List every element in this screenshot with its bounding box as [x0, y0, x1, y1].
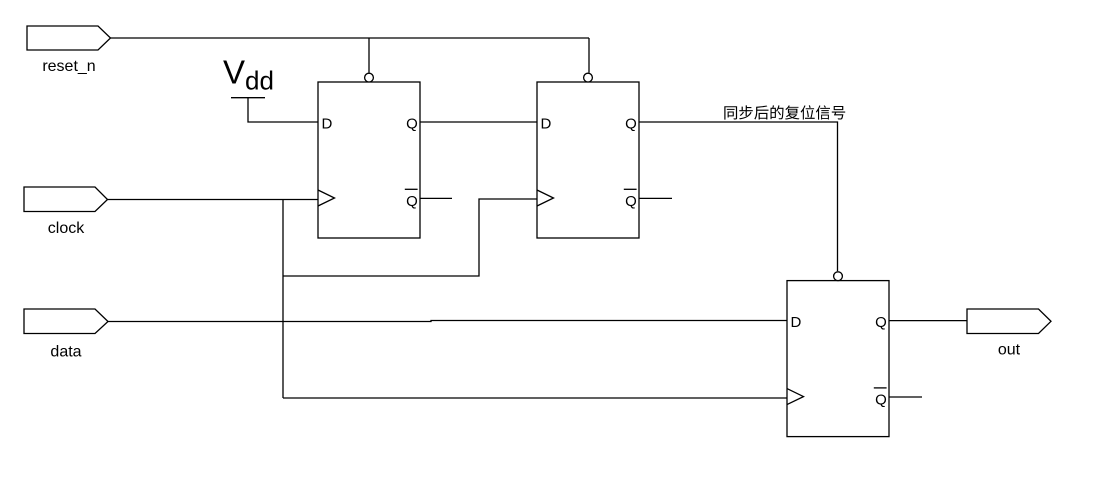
U3 clock input: [787, 389, 804, 405]
flip-flop U1: [318, 73, 420, 238]
flip-flop U3: [787, 272, 889, 437]
svg-text:D: D: [541, 115, 552, 132]
svg-text:reset_n: reset_n: [42, 58, 95, 75]
wire reset_n drop to U2 bubble: [588, 38, 590, 73]
U2 body: [537, 82, 639, 238]
U1 pin Qbar overbar: [405, 188, 418, 190]
stub U3 Qbar: [889, 396, 922, 398]
stub U1 Qbar: [420, 197, 452, 199]
svg-text:Q: Q: [406, 193, 418, 210]
svg-text:D: D: [322, 115, 333, 132]
svg-text:Q: Q: [625, 115, 637, 132]
svg-text:Q: Q: [875, 391, 887, 408]
wire U2 Q to U3 reset bubble: [639, 122, 838, 271]
U3 body: [787, 281, 889, 437]
wire clock branch to U2 clk: [283, 199, 537, 276]
wire clock to U3 clk: [283, 397, 787, 399]
svg-text:Q: Q: [406, 115, 418, 132]
U1 clock input: [318, 190, 335, 206]
power Vdd bar: [231, 97, 265, 99]
U2 pin Qbar overbar: [624, 188, 637, 190]
svg-text:out: out: [998, 342, 1021, 359]
svg-text:Q: Q: [625, 193, 637, 210]
U3 reset bubble: [834, 272, 843, 281]
port data: [24, 309, 108, 334]
svg-text:data: data: [50, 344, 81, 361]
port clock: [24, 187, 108, 212]
port out: [967, 309, 1051, 334]
U1 reset bubble: [365, 73, 374, 82]
label 同步后的复位信号 (synchronized reset signal): [724, 105, 845, 119]
U3 pin Qbar overbar: [874, 387, 887, 389]
port reset_n: [27, 26, 111, 50]
wire reset_n net (horizontal): [111, 37, 590, 39]
wire U1 Q to U2 D: [420, 121, 537, 123]
U2 clock input: [537, 190, 554, 206]
U1 body: [318, 82, 420, 238]
wire data to U3 D: [108, 321, 787, 322]
U2 reset bubble: [584, 73, 593, 82]
wire reset_n drop to U1 bubble: [368, 38, 370, 73]
wire clock trunk down: [282, 200, 284, 399]
svg-text:D: D: [791, 314, 802, 331]
wire clock to U1 clk: [108, 199, 319, 201]
svg-text:Q: Q: [875, 314, 887, 331]
flip-flop U2: [537, 73, 639, 238]
wire Vdd to U1 D: [248, 98, 318, 122]
wire U3 Q to out port: [889, 320, 967, 322]
svg-text:clock: clock: [48, 220, 85, 237]
stub U2 Qbar: [639, 197, 672, 199]
